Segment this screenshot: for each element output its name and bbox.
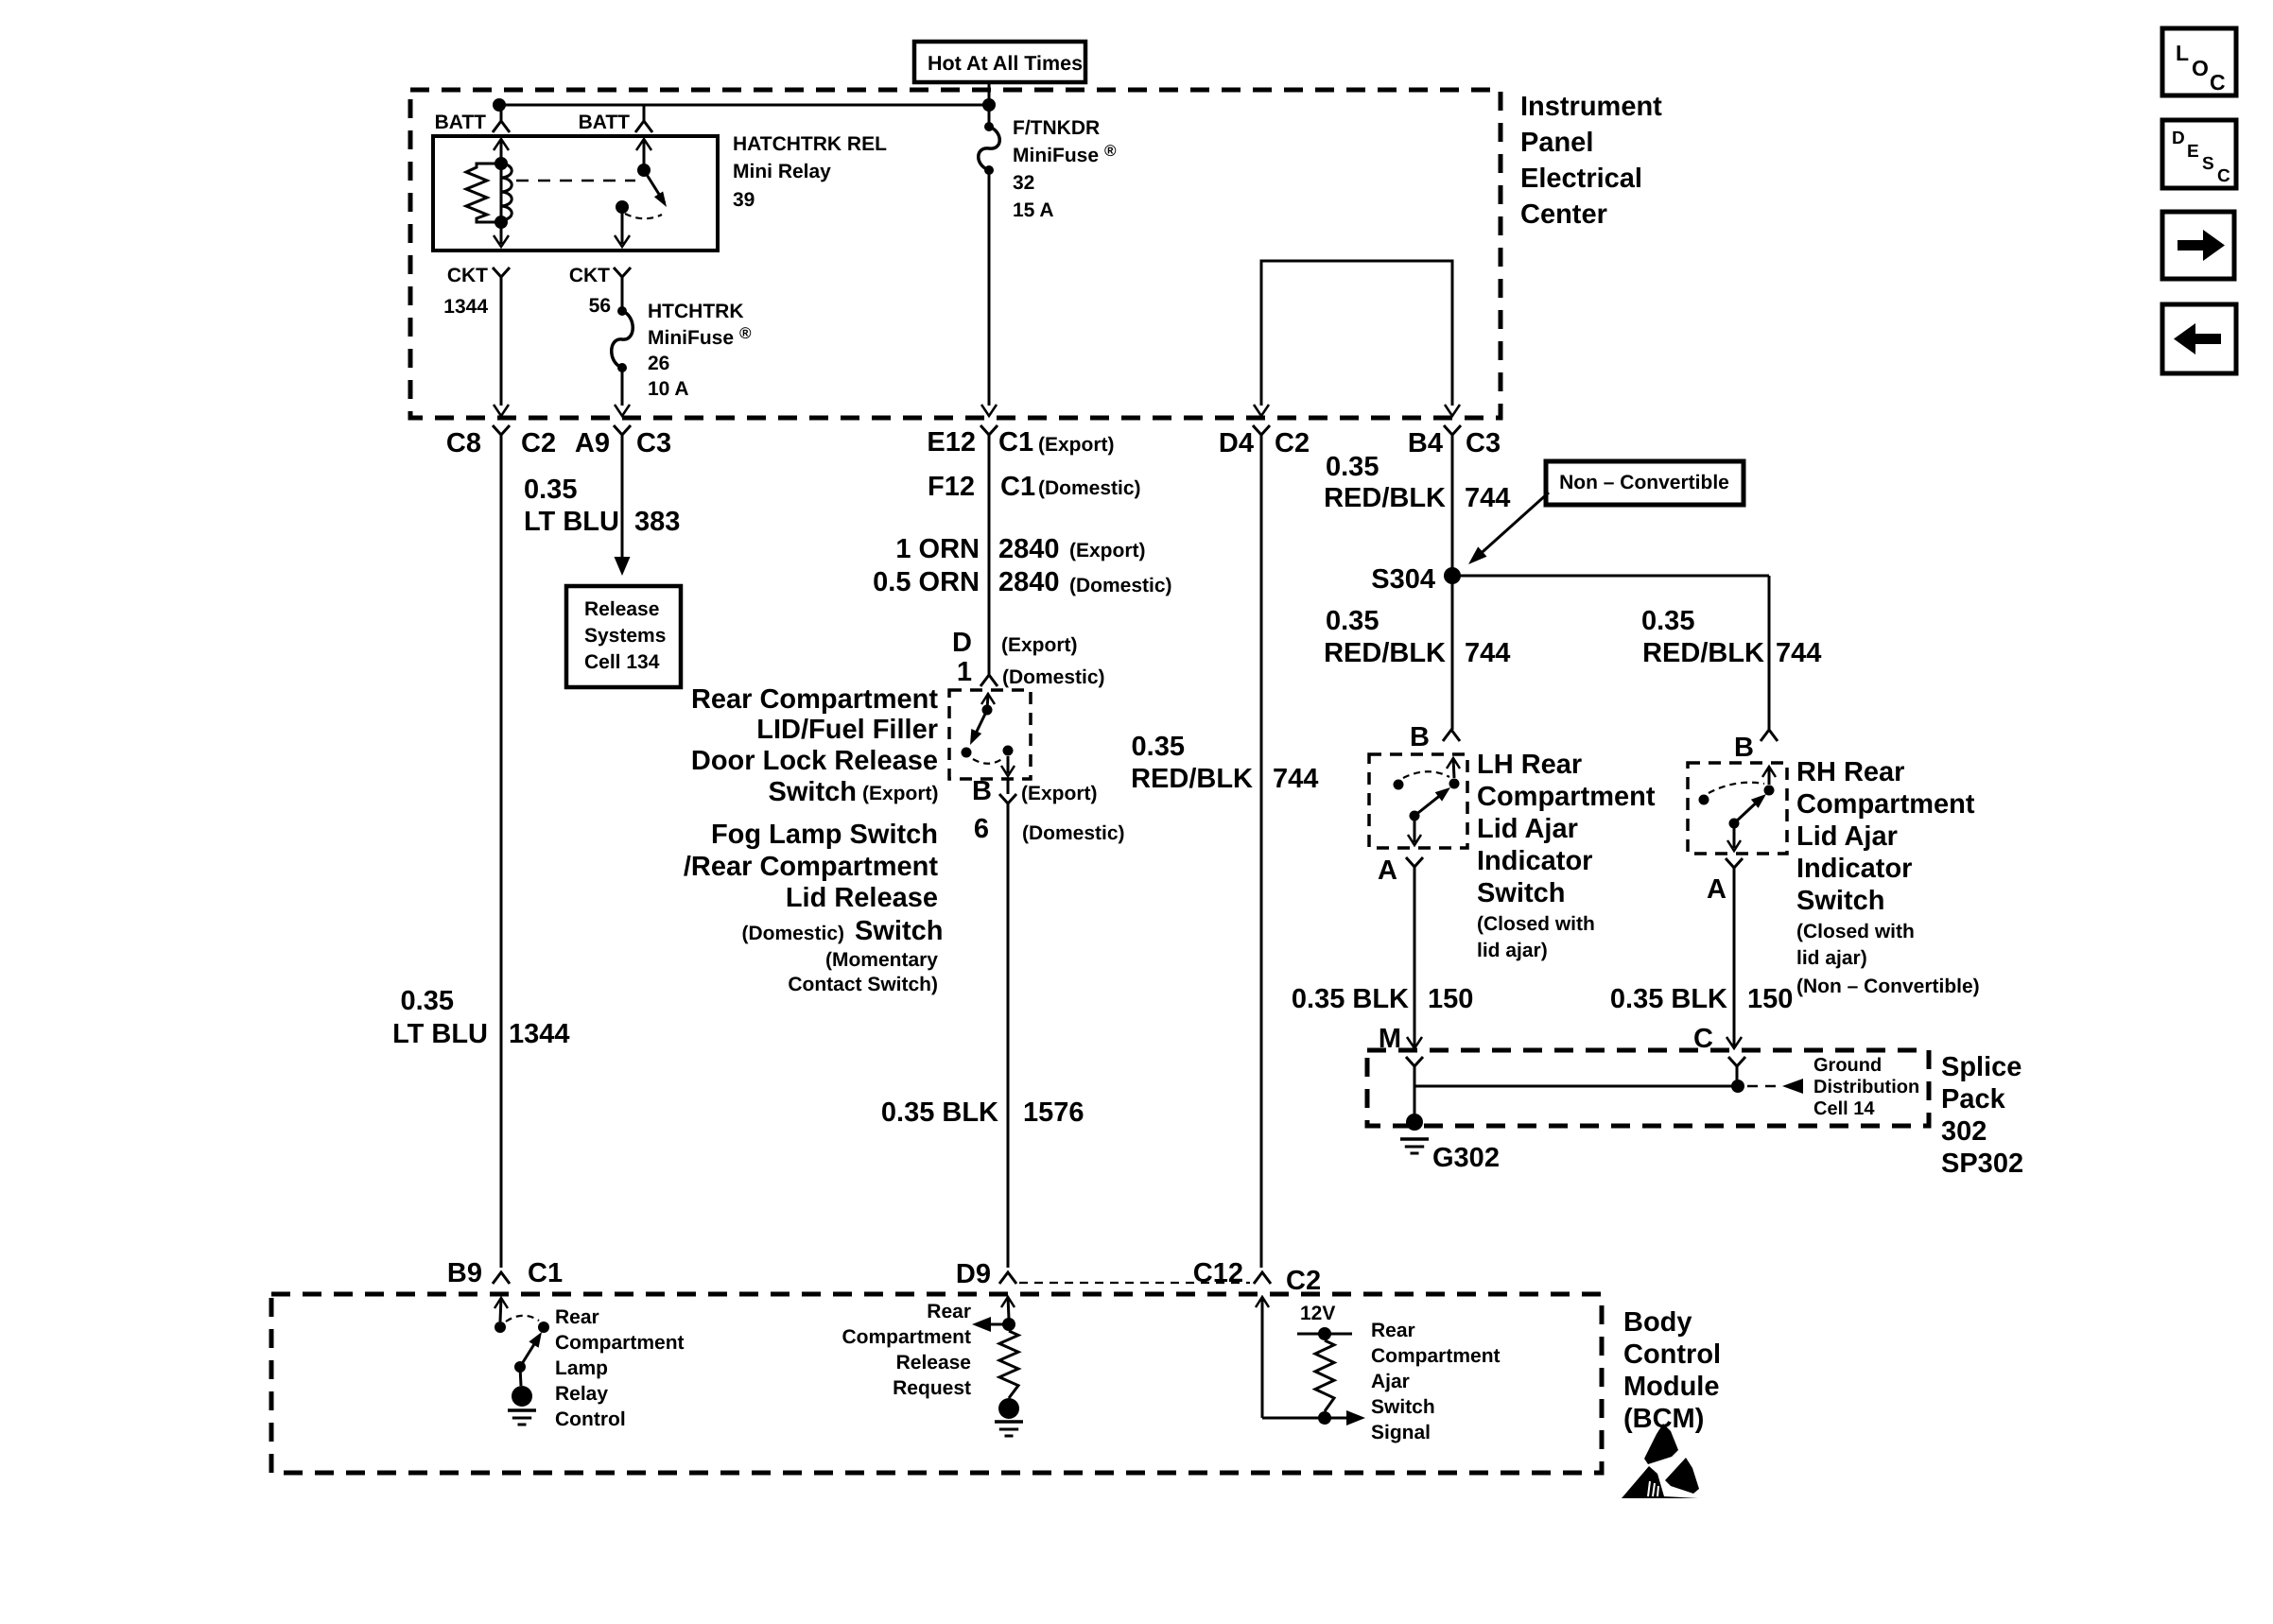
svg-text:(Export): (Export) <box>1069 540 1146 561</box>
svg-text:D4: D4 <box>1219 428 1254 458</box>
svg-text:0.5 ORN: 0.5 ORN <box>873 567 980 597</box>
svg-text:Switch: Switch <box>855 916 943 946</box>
svg-text:Compartment: Compartment <box>1796 789 1975 820</box>
svg-text:6: 6 <box>974 814 989 844</box>
svg-text:32: 32 <box>1013 172 1034 194</box>
svg-text:BATT: BATT <box>579 112 631 133</box>
svg-text:Switch: Switch <box>1477 878 1565 908</box>
svg-text:Compartment: Compartment <box>1477 782 1656 812</box>
svg-text:Ground: Ground <box>1813 1055 1882 1076</box>
svg-text:1576: 1576 <box>1023 1097 1084 1128</box>
svg-text:RED/BLK: RED/BLK <box>1642 638 1764 668</box>
svg-text:0.35: 0.35 <box>401 986 454 1016</box>
svg-text:C1: C1 <box>528 1258 563 1288</box>
svg-text:B: B <box>1410 722 1430 752</box>
svg-text:1344: 1344 <box>509 1019 570 1049</box>
svg-text:C: C <box>2217 166 2230 186</box>
svg-text:Release: Release <box>896 1352 971 1373</box>
svg-text:744: 744 <box>1776 638 1821 668</box>
svg-text:Switch: Switch <box>1796 886 1884 916</box>
svg-text:12V: 12V <box>1300 1303 1335 1324</box>
svg-text:Body: Body <box>1623 1307 1692 1338</box>
svg-text:Signal: Signal <box>1371 1422 1431 1443</box>
svg-text:RED/BLK: RED/BLK <box>1324 638 1446 668</box>
svg-text:15 A: 15 A <box>1013 199 1054 221</box>
svg-text:(Export): (Export) <box>1001 634 1078 656</box>
svg-text:744: 744 <box>1465 638 1510 668</box>
svg-text:(Non – Convertible): (Non – Convertible) <box>1796 976 1980 997</box>
svg-text:C2: C2 <box>521 428 556 458</box>
svg-text:Compartment: Compartment <box>555 1332 685 1354</box>
svg-text:(Closed with: (Closed with <box>1796 921 1915 942</box>
svg-text:F12: F12 <box>928 472 975 502</box>
svg-text:O: O <box>2192 56 2209 80</box>
svg-text:LT BLU: LT BLU <box>524 507 619 537</box>
svg-text:B4: B4 <box>1408 428 1443 458</box>
svg-text:Fog Lamp Switch: Fog Lamp Switch <box>711 820 938 850</box>
svg-text:CKT: CKT <box>569 265 610 286</box>
svg-text:MiniFuse: MiniFuse <box>1013 145 1099 166</box>
svg-text:A: A <box>1707 874 1726 905</box>
svg-text:26: 26 <box>648 353 669 374</box>
svg-text:Switch: Switch <box>769 777 857 807</box>
svg-text:D: D <box>2172 129 2185 148</box>
svg-text:Rear Compartment: Rear Compartment <box>691 684 938 715</box>
svg-text:39: 39 <box>733 189 755 211</box>
svg-text:C1: C1 <box>998 427 1033 458</box>
svg-text:LT BLU: LT BLU <box>392 1019 488 1049</box>
svg-text:BATT: BATT <box>435 112 487 133</box>
svg-text:Switch: Switch <box>1371 1396 1435 1418</box>
svg-text:Hot At All Times: Hot At All Times <box>928 52 1083 75</box>
svg-text:L: L <box>2176 41 2189 65</box>
svg-text:383: 383 <box>634 507 680 537</box>
svg-text:Cell 134: Cell 134 <box>584 651 660 673</box>
svg-text:B9: B9 <box>447 1258 482 1288</box>
svg-text:Door Lock Release: Door Lock Release <box>691 746 938 776</box>
svg-text:0.35: 0.35 <box>1641 606 1694 636</box>
svg-text:Lamp: Lamp <box>555 1357 608 1379</box>
svg-text:(Export): (Export) <box>862 783 939 804</box>
svg-text:10 A: 10 A <box>648 378 689 400</box>
svg-text:744: 744 <box>1465 483 1510 513</box>
svg-text:Systems: Systems <box>584 625 666 647</box>
svg-text:Cell 14: Cell 14 <box>1813 1098 1875 1119</box>
svg-text:Module: Module <box>1623 1372 1720 1402</box>
svg-text:S304: S304 <box>1371 564 1435 595</box>
svg-text:Control: Control <box>1623 1339 1721 1370</box>
svg-text:Rear: Rear <box>1371 1320 1415 1341</box>
svg-text:F/TNKDR: F/TNKDR <box>1013 117 1100 139</box>
svg-text:56: 56 <box>589 295 611 317</box>
svg-text:Compartment: Compartment <box>842 1326 971 1348</box>
svg-text:E: E <box>2187 142 2199 162</box>
svg-text:B: B <box>972 776 992 806</box>
svg-text:C2: C2 <box>1286 1266 1321 1296</box>
svg-text:lid ajar): lid ajar) <box>1796 947 1867 969</box>
svg-text:HTCHTRK: HTCHTRK <box>648 301 743 322</box>
svg-text:E12: E12 <box>927 427 976 458</box>
svg-text:Panel: Panel <box>1520 128 1593 158</box>
svg-text:744: 744 <box>1273 764 1318 794</box>
svg-text:A9: A9 <box>575 428 610 458</box>
svg-text:(Momentary: (Momentary <box>825 949 938 971</box>
svg-text:Lid Ajar: Lid Ajar <box>1796 821 1898 852</box>
svg-text:Rear: Rear <box>927 1301 971 1322</box>
svg-text:G302: G302 <box>1432 1143 1500 1173</box>
svg-text:C3: C3 <box>636 428 671 458</box>
svg-text:C12: C12 <box>1193 1258 1243 1288</box>
svg-text:Splice: Splice <box>1941 1052 2021 1082</box>
svg-text:SP302: SP302 <box>1941 1149 2023 1179</box>
svg-text:Lid Ajar: Lid Ajar <box>1477 814 1578 844</box>
svg-text:(Export): (Export) <box>1038 434 1115 456</box>
svg-text:Indicator: Indicator <box>1796 854 1912 884</box>
svg-text:1344: 1344 <box>443 296 488 318</box>
svg-text:®: ® <box>739 324 752 342</box>
svg-text:Release: Release <box>584 598 659 620</box>
svg-text:302: 302 <box>1941 1116 1987 1147</box>
svg-text:Mini Relay: Mini Relay <box>733 161 831 182</box>
svg-text:0.35: 0.35 <box>1132 732 1185 762</box>
svg-text:Request: Request <box>893 1377 971 1399</box>
svg-text:C8: C8 <box>446 428 481 458</box>
svg-text:1: 1 <box>957 657 972 687</box>
svg-text:/Rear Compartment: /Rear Compartment <box>684 852 938 882</box>
svg-text:Center: Center <box>1520 199 1607 230</box>
svg-text:®: ® <box>1104 142 1117 160</box>
svg-text:A: A <box>1378 855 1397 886</box>
svg-text:B: B <box>1734 733 1754 763</box>
svg-text:Instrument: Instrument <box>1520 92 1662 122</box>
svg-text:(Closed with: (Closed with <box>1477 913 1595 935</box>
svg-text:Ajar: Ajar <box>1371 1371 1410 1392</box>
svg-text:0.35 BLK: 0.35 BLK <box>1610 984 1727 1014</box>
svg-text:C3: C3 <box>1466 428 1501 458</box>
svg-text:Indicator: Indicator <box>1477 846 1592 876</box>
svg-text:0.35: 0.35 <box>1326 606 1379 636</box>
svg-text:D: D <box>952 628 972 658</box>
svg-text:LH Rear: LH Rear <box>1477 750 1582 780</box>
svg-text:Lid Release: Lid Release <box>786 883 938 913</box>
svg-text:Compartment: Compartment <box>1371 1345 1501 1367</box>
svg-text:(Domestic): (Domestic) <box>1002 666 1105 688</box>
svg-text:D9: D9 <box>956 1259 991 1289</box>
svg-text:Distribution: Distribution <box>1813 1077 1919 1097</box>
svg-text:150: 150 <box>1747 984 1793 1014</box>
svg-text:lid ajar): lid ajar) <box>1477 940 1548 961</box>
svg-text:150: 150 <box>1428 984 1473 1014</box>
svg-text:2840: 2840 <box>998 567 1060 597</box>
svg-text:Relay: Relay <box>555 1383 608 1405</box>
svg-text:RH Rear: RH Rear <box>1796 757 1904 787</box>
svg-text:Control: Control <box>555 1408 626 1430</box>
svg-text:0.35: 0.35 <box>1326 452 1379 482</box>
svg-text:HATCHTRK REL: HATCHTRK REL <box>733 133 887 155</box>
svg-text:(Domestic): (Domestic) <box>1038 477 1141 499</box>
svg-text:0.35 BLK: 0.35 BLK <box>1292 984 1409 1014</box>
svg-text:Non – Convertible: Non – Convertible <box>1559 472 1729 493</box>
svg-text:MiniFuse: MiniFuse <box>648 327 734 349</box>
svg-text:1 ORN: 1 ORN <box>895 534 980 564</box>
svg-text:Pack: Pack <box>1941 1084 2006 1114</box>
svg-text:(Domestic): (Domestic) <box>1022 822 1125 844</box>
svg-text:0.35: 0.35 <box>524 475 577 505</box>
svg-text:0.35 BLK: 0.35 BLK <box>881 1097 998 1128</box>
svg-text:Contact Switch): Contact Switch) <box>788 974 938 995</box>
svg-text:C2: C2 <box>1275 428 1310 458</box>
svg-text:(Domestic): (Domestic) <box>1069 575 1172 596</box>
svg-text:CKT: CKT <box>447 265 488 286</box>
svg-text:RED/BLK: RED/BLK <box>1131 764 1253 794</box>
svg-text:RED/BLK: RED/BLK <box>1324 483 1446 513</box>
svg-text:(Export): (Export) <box>1021 783 1098 804</box>
svg-text:LID/Fuel Filler: LID/Fuel Filler <box>756 715 938 745</box>
svg-text:Electrical: Electrical <box>1520 164 1642 194</box>
svg-text:S: S <box>2202 154 2214 174</box>
svg-text:Rear: Rear <box>555 1306 599 1328</box>
svg-text:C1: C1 <box>1000 472 1035 502</box>
svg-text:(Domestic): (Domestic) <box>741 923 844 944</box>
svg-text:C: C <box>2210 70 2226 95</box>
svg-text:2840: 2840 <box>998 534 1060 564</box>
